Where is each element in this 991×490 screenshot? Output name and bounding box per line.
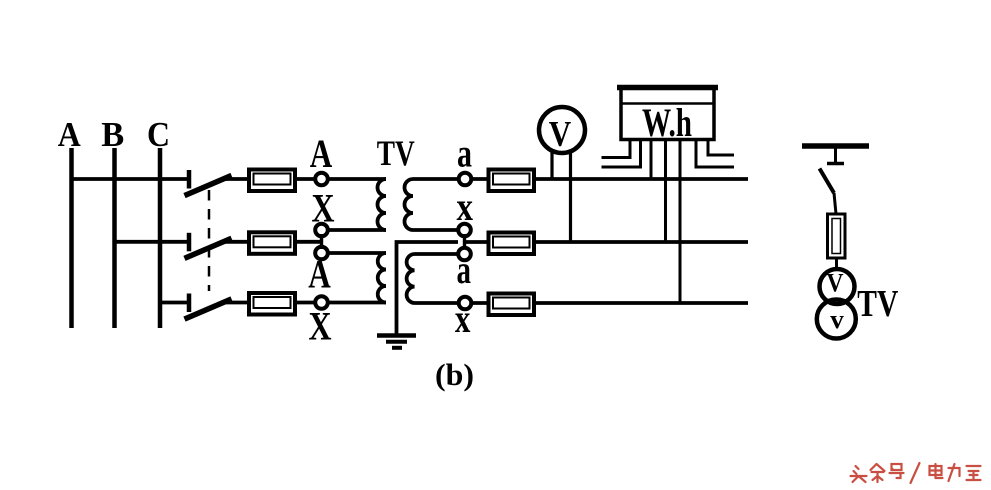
fuse FU4 secondary row1 [489,170,535,192]
switch gang linkage dashed line [208,190,211,291]
svg-text:W.h: W.h [642,100,692,145]
terminal a secondary winding1 [459,173,472,186]
terminal x secondary winding2 [459,297,472,310]
watermark 头条号/电力宝 [851,463,981,483]
svg-text:A: A [308,252,331,297]
svg-text:(b): (b) [435,357,474,392]
wire row3 fuse to right end [535,301,748,305]
watermark char 力 [949,464,960,481]
wire primary coil1 top [328,177,386,181]
svg-text:V: V [827,269,844,298]
watermark char 头 [851,466,867,482]
primary winding 2 coil [378,253,386,303]
wire row3 switch to fuse [224,301,249,305]
W.h lead right staple upper [708,141,734,155]
voltmeter lead to row2 [569,150,572,242]
W.h lead right staple lower [696,141,734,167]
wire row2 switch to fuse [224,240,249,244]
busbar A [69,148,74,328]
wire row2 fuse to terminal junction [297,240,322,244]
terminal a secondary winding2 [458,248,471,261]
terminal X winding1 [315,224,328,237]
disconnect switch QS fixed contact row2 [187,233,192,252]
wire row2 bus B to switch [115,240,189,244]
watermark char 条 [871,464,885,482]
watermark char 宝 [967,466,981,480]
wire primary coil1 bottom [328,228,386,232]
wire row1 bus A to switch [72,177,189,181]
mini switch blade [820,169,835,194]
mini switch fixed contact [827,162,844,166]
disconnect switch QS fixed contact row1 [187,170,192,189]
terminal x secondary winding1 [458,224,471,237]
disconnect switch QS blade row2 [187,239,229,257]
wire row2 junction to fuse [465,240,489,244]
terminal A winding1 [315,173,328,186]
secondary winding 1 coil [405,179,414,230]
fuse FU5 secondary row2 [489,233,535,255]
svg-text:a: a [457,131,472,176]
mini wire fuse to TV [835,258,838,271]
mini TV primary circle [820,269,855,304]
svg-text:x: x [455,296,471,341]
mini TV secondary circle [817,300,856,339]
wire neutral to ground [397,242,459,334]
fuse FU3 primary row3 [249,293,295,315]
right mini-diagram busbar [802,143,869,149]
voltmeter V circle [539,107,585,153]
mini fuse [828,214,846,258]
wire secondary coil2 top to terminal a [415,252,459,256]
busbar C [158,148,163,328]
disconnect switch QS fixed contact row3 [187,294,192,313]
W.h lead to row3 [679,141,682,303]
energy meter W.h inner line [621,102,714,105]
terminal A winding2 [315,247,328,260]
svg-text:X: X [309,304,332,349]
disconnect switch QS blade row1 [187,177,229,195]
secondary winding 2 coil [407,254,415,303]
watermark char 号 [890,464,904,478]
wire row2 fuse to right end [535,240,748,244]
energy meter W.h top bar [617,85,718,91]
junction between primary X and A [320,234,323,249]
wire secondary coil1 bottom to terminal x [413,228,458,232]
wire row1 fuse to terminal A [297,177,315,181]
wire primary coil2 bottom [328,301,386,305]
wire row1 switch to fuse [224,177,249,181]
svg-text:TV: TV [857,283,898,325]
svg-text:TV: TV [377,133,415,173]
W.h lead to row2 [664,141,667,242]
voltmeter lead to row1 [550,150,553,179]
svg-text:V: V [549,114,572,154]
watermark slash [911,463,920,483]
wire secondary coil1 top to terminal a [413,177,458,181]
terminal X winding2 [315,296,328,309]
W.h lead left staple lower [602,141,641,167]
junction between secondary x and a [463,234,466,249]
fuse FU2 primary row2 [249,232,295,254]
wire row1 terminal a to fuse [472,177,489,181]
watermark char 电 [930,464,943,478]
wire row3 fuse to terminal X [297,301,315,305]
fuse FU6 secondary row3 [489,294,535,316]
wire row3 bus C to switch [160,301,188,305]
W.h lead to row1 [650,141,653,179]
svg-text:a: a [456,247,471,292]
energy meter W.h box [621,87,714,140]
wire secondary coil2 bottom to terminal x [415,301,459,305]
svg-text:v: v [830,305,844,334]
mini switch stub [834,148,837,164]
disconnect switch QS blade row3 [187,300,229,318]
primary winding 1 coil [378,179,387,230]
wire primary coil2 top [328,251,386,255]
wire row1 fuse to right end [535,177,748,181]
mini wire blade to fuse [834,193,836,214]
wire row3 terminal x to fuse [472,301,489,305]
svg-text:A: A [310,131,333,176]
busbar B [112,148,117,328]
ground symbol [377,336,416,348]
W.h lead left staple upper [602,141,631,158]
fuse FU1 primary row1 [249,170,295,192]
